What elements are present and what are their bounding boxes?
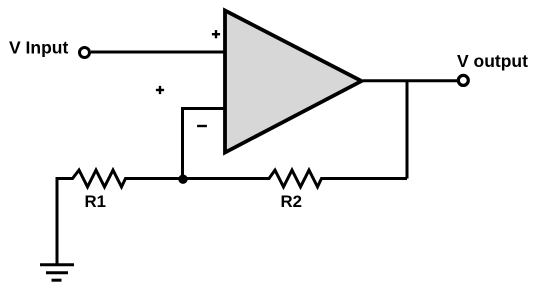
svg-text:V output: V output [457, 51, 528, 71]
svg-text:R1: R1 [85, 192, 106, 211]
svg-text:V Input: V Input [9, 38, 68, 58]
svg-text:R2: R2 [281, 192, 302, 211]
